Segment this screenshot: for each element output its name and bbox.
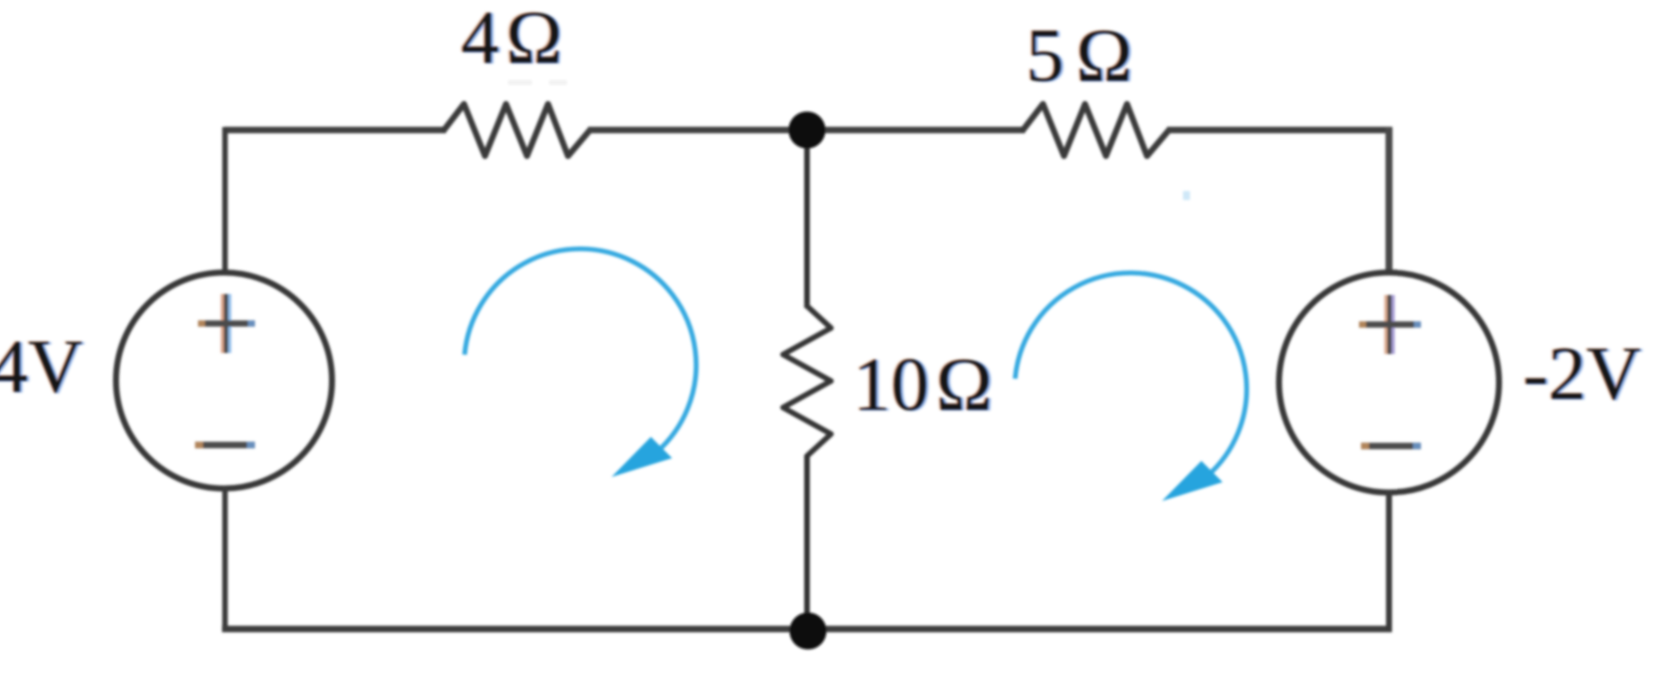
wire middle vertical bottom segment	[804, 455, 810, 631]
node top junction dot	[789, 112, 826, 149]
svg-text:Ω: Ω	[1076, 14, 1132, 98]
artifact faint blue dot near R2	[1183, 191, 1190, 200]
wire left vertical top stub	[222, 127, 228, 275]
wire top rail middle segment	[588, 127, 1025, 134]
mesh current arrow I1 arc	[465, 249, 697, 452]
label 10-ohm	[852, 343, 995, 428]
voltage source V1 circle	[116, 273, 332, 489]
V2 plus sign	[1359, 295, 1421, 354]
resistor R2 5-ohm zigzag	[1023, 104, 1169, 156]
voltage source V2 circle	[1279, 273, 1499, 493]
wire left vertical bottom stub	[222, 487, 228, 632]
wire bottom rail	[222, 626, 1392, 633]
wire top rail left segment	[225, 127, 446, 134]
V1 plus sign	[198, 294, 255, 353]
resistor R3 10-ohm vertical zigzag	[783, 306, 831, 456]
svg-text:Ω: Ω	[936, 343, 992, 427]
wire middle vertical top segment	[804, 127, 810, 308]
label 4V source value	[0, 325, 86, 410]
resistor R1 4-ohm zigzag	[444, 104, 590, 156]
svg-text:4: 4	[461, 0, 499, 80]
label -2V source value	[1522, 332, 1644, 417]
wire right vertical top stub	[1386, 127, 1393, 275]
mesh current arrow I2 arc	[1015, 273, 1247, 476]
node bottom junction dot	[790, 613, 827, 650]
label 5-ohm	[1025, 14, 1135, 99]
svg-text:5: 5	[1026, 14, 1064, 98]
svg-text:4V: 4V	[0, 325, 83, 409]
svg-text:Ω: Ω	[506, 0, 562, 80]
wire right vertical bottom stub	[1386, 490, 1392, 632]
artifact faint dashes above R1	[508, 80, 532, 85]
label 4-ohm	[460, 0, 565, 81]
wire top rail right segment	[1167, 127, 1392, 134]
mesh current arrow I2 head	[1162, 461, 1223, 501]
svg-text:-2V: -2V	[1523, 332, 1641, 416]
V2 minus sign	[1361, 443, 1421, 449]
mesh current arrow I1 head	[612, 437, 673, 477]
V1 minus sign	[195, 442, 255, 448]
svg-text:10: 10	[853, 343, 929, 427]
